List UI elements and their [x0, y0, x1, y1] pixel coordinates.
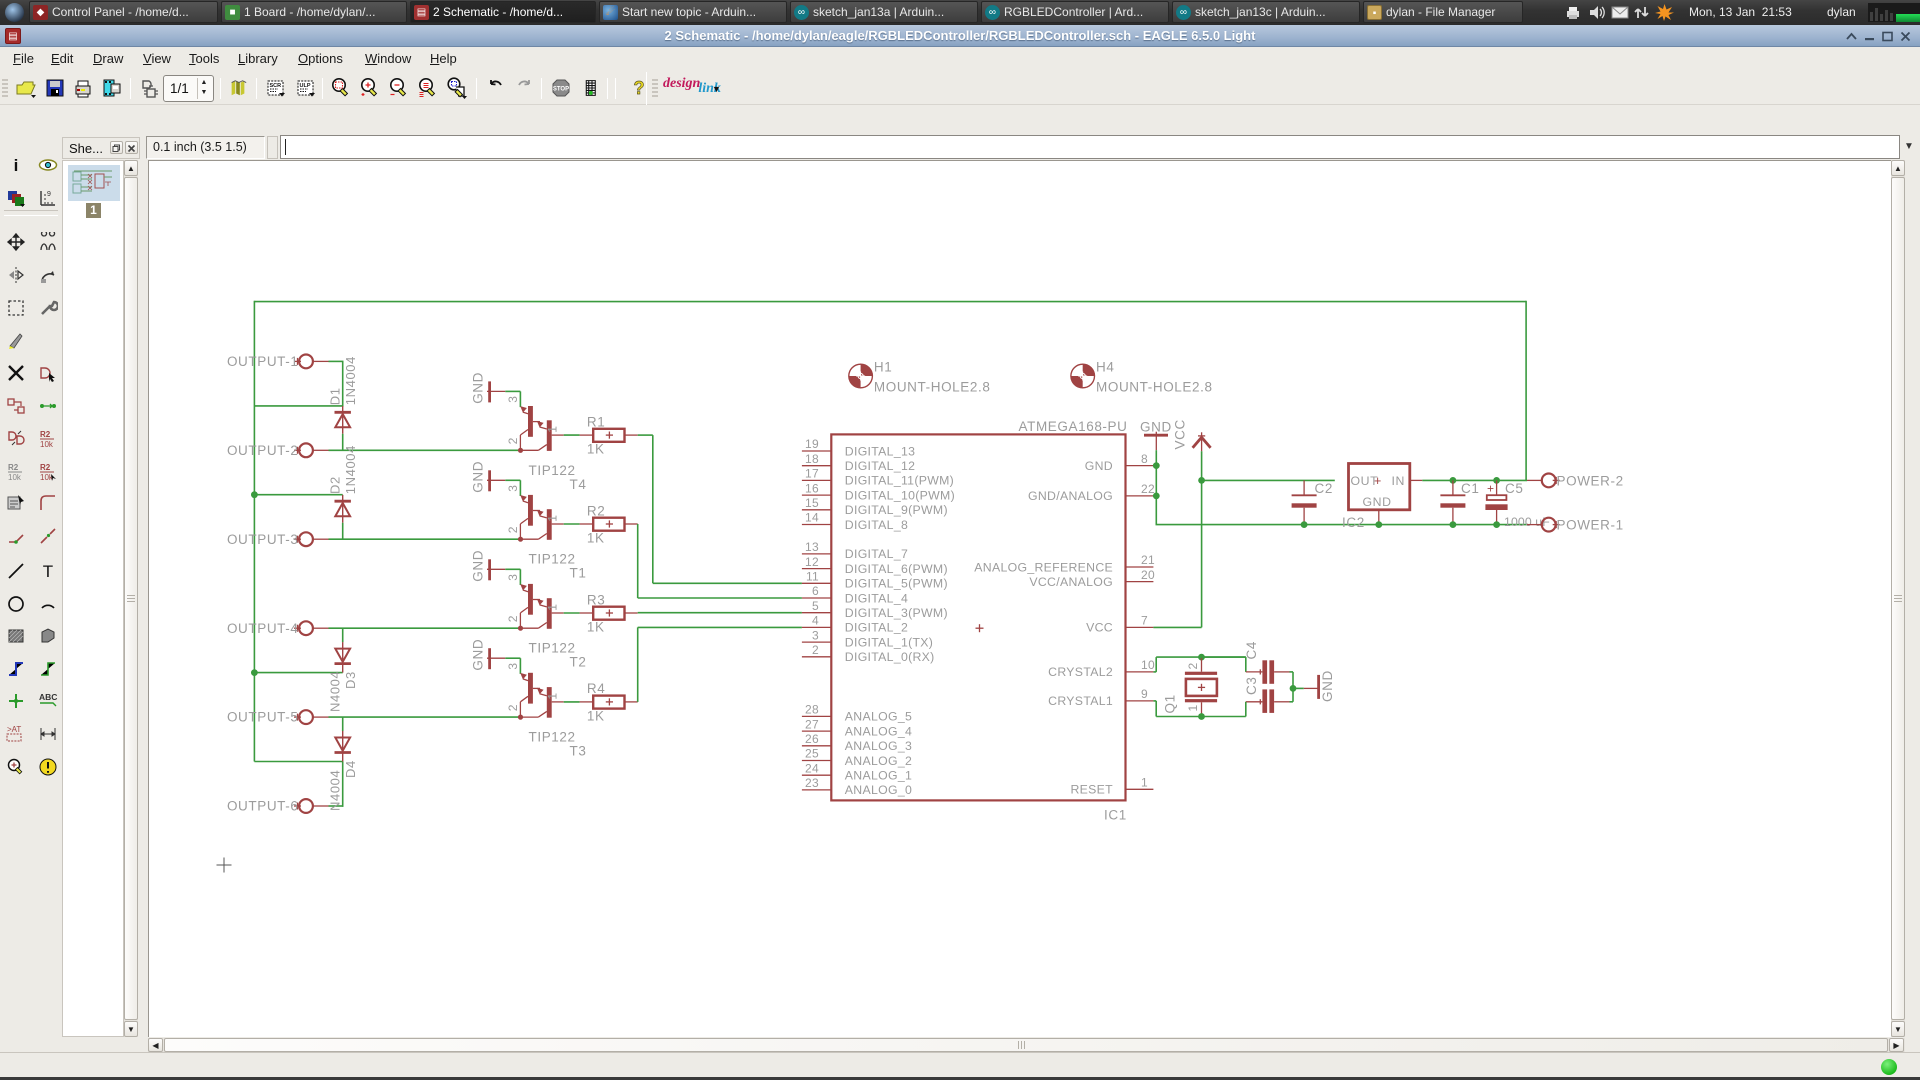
svg-text:15: 15: [805, 496, 819, 510]
svg-text:2: 2: [506, 437, 520, 444]
pin OUTPUT-3: [227, 532, 329, 547]
wire GND symbol to pin 8: [1155, 450, 1157, 465]
transistor T1 TIP122: [506, 484, 587, 580]
wire T1 emitter to R2: [564, 523, 580, 525]
svg-text:ANALOG_1: ANALOG_1: [845, 769, 912, 783]
svg-text:19: 19: [805, 437, 819, 451]
wire T4 emitter to R1: [564, 434, 580, 436]
svg-text:ANALOG_REFERENCE: ANALOG_REFERENCE: [974, 560, 1113, 574]
svg-text:RESET: RESET: [1071, 783, 1114, 797]
pin OUTPUT-2: [227, 443, 329, 458]
svg-text:1: 1: [546, 426, 560, 433]
svg-text:ABC: ABC: [39, 692, 57, 702]
pin POWER-1: [1542, 518, 1624, 533]
svg-text:IN: IN: [1392, 474, 1406, 488]
mount hole 4 MOUNT-HOLE2.8: [1071, 360, 1213, 395]
diode D4 1N4004: [328, 717, 359, 811]
svg-text:6: 6: [812, 584, 819, 598]
svg-text:ANALOG_4: ANALOG_4: [845, 724, 912, 738]
svg-text:R2: R2: [40, 430, 51, 439]
wire junction to GND symbol: [1293, 687, 1304, 689]
svg-text:1: 1: [546, 514, 560, 521]
svg-text:3: 3: [812, 628, 819, 642]
svg-text:17: 17: [805, 467, 819, 481]
svg-text:1K: 1K: [587, 531, 605, 546]
pin OUTPUT-4: [227, 621, 329, 636]
svg-text:R2: R2: [587, 503, 605, 518]
capacitor C3: [1244, 677, 1290, 713]
svg-text:3: 3: [506, 573, 520, 580]
diode D3 1N4004: [328, 628, 359, 712]
svg-text:23: 23: [805, 776, 819, 790]
svg-text:20: 20: [1141, 568, 1155, 582]
resistor R2 1K: [580, 503, 638, 545]
node junction C1 ground: [1450, 521, 1457, 528]
svg-text:T4: T4: [570, 477, 587, 492]
wire C3 to crystal pin 1: [1245, 702, 1247, 717]
capacitor C4: [1244, 641, 1290, 684]
svg-text:GND: GND: [1085, 459, 1113, 473]
svg-text:T1: T1: [570, 566, 587, 581]
wire top frame: [254, 301, 1526, 303]
svg-text:OUTPUT-5: OUTPUT-5: [227, 710, 299, 725]
svg-text:DIGITAL_2: DIGITAL_2: [845, 621, 908, 635]
svg-text:T2: T2: [570, 655, 587, 670]
wire OUTPUT-3 to T1 base: [329, 538, 521, 540]
svg-text:T3: T3: [570, 744, 587, 759]
wire OUTPUT-1 to D1: [329, 360, 344, 362]
pin OUTPUT-6: [227, 799, 329, 814]
transistor T2 TIP122: [506, 573, 587, 669]
svg-text:H1: H1: [874, 360, 892, 375]
wire T3 emitter to R4: [564, 701, 580, 703]
pin POWER-2: [1542, 473, 1624, 488]
supply symbol VCC: [1173, 419, 1211, 451]
svg-text:DIGITAL_10(PWM): DIGITAL_10(PWM): [845, 488, 955, 502]
svg-text:OUTPUT-2: OUTPUT-2: [227, 443, 299, 458]
svg-text:21: 21: [1141, 553, 1155, 567]
svg-text:TIP122: TIP122: [529, 552, 576, 567]
svg-text:1: 1: [1141, 776, 1148, 790]
svg-text:1K: 1K: [587, 442, 605, 457]
transistor T4 TIP122: [506, 396, 587, 492]
wire IC2 IN to POWER-2: [1410, 479, 1423, 481]
svg-text:1N4004: 1N4004: [343, 356, 358, 405]
wire right frame vertical: [1525, 301, 1527, 481]
svg-text:ANALOG_2: ANALOG_2: [845, 754, 912, 768]
wire OUTPUT-5 to T3 base: [329, 716, 521, 718]
wire OUTPUT-4 to T2 base: [329, 627, 521, 629]
svg-text:STOP: STOP: [553, 87, 569, 93]
svg-text:POWER-2: POWER-2: [1557, 473, 1624, 488]
svg-text:C3: C3: [1244, 677, 1259, 695]
svg-text:16: 16: [805, 481, 819, 495]
node junction C5 ground: [1493, 521, 1500, 528]
svg-text:3: 3: [506, 484, 520, 491]
svg-text:DIGITAL_5(PWM): DIGITAL_5(PWM): [845, 577, 948, 591]
svg-text:GND/ANALOG: GND/ANALOG: [1028, 489, 1113, 503]
resistor R3 1K: [580, 592, 638, 634]
svg-text:11: 11: [806, 570, 819, 584]
svg-text:DIGITAL_7: DIGITAL_7: [845, 547, 908, 561]
svg-text:ATMEGA168-PU: ATMEGA168-PU: [1019, 419, 1128, 434]
svg-text:D2: D2: [328, 476, 343, 494]
svg-text:2: 2: [506, 704, 520, 711]
svg-text:TIP122: TIP122: [529, 730, 576, 745]
svg-text:27: 27: [805, 717, 819, 731]
svg-text:5: 5: [812, 599, 819, 613]
svg-text:DIGITAL_9(PWM): DIGITAL_9(PWM): [845, 503, 948, 517]
svg-text:1N4004: 1N4004: [343, 445, 358, 494]
node junction C1 top: [1450, 477, 1457, 484]
svg-text:9: 9: [47, 191, 51, 198]
node junction IC2 ground: [1375, 521, 1382, 528]
wire ground rail to POWER-1: [1527, 524, 1541, 526]
svg-text:ANALOG_5: ANALOG_5: [845, 710, 912, 724]
capacitor C1: [1440, 480, 1479, 522]
svg-text:>AT: >AT: [7, 725, 21, 734]
wire OUTPUT-6 to D4: [329, 805, 344, 807]
ground symbol GND at crystal: [1304, 670, 1335, 702]
svg-text:DIGITAL_13: DIGITAL_13: [845, 444, 915, 458]
svg-text:C1: C1: [1461, 481, 1479, 496]
svg-text:26: 26: [805, 732, 819, 746]
wire crystal to C4: [1202, 656, 1246, 658]
svg-text:MOUNT-HOLE2.8: MOUNT-HOLE2.8: [1096, 380, 1213, 395]
wire pins 8-22 to ground rail: [1155, 466, 1157, 525]
svg-text:18: 18: [805, 452, 819, 466]
svg-text:13: 13: [805, 540, 819, 554]
svg-text:2: 2: [1186, 662, 1200, 669]
wire IC1 pin 10 to crystal: [1153, 671, 1156, 673]
ground symbol GND at T3: [471, 639, 506, 671]
svg-text:IC1: IC1: [1104, 808, 1127, 823]
svg-text:OUTPUT-6: OUTPUT-6: [227, 799, 299, 814]
wire R3 to IC1 pin 5: [638, 612, 802, 614]
svg-text:10k: 10k: [40, 440, 54, 448]
svg-text:22: 22: [1141, 482, 1155, 496]
ic ATMEGA168-PU IC1: [802, 419, 1155, 823]
svg-text:C5: C5: [1505, 481, 1523, 496]
svg-text:GND: GND: [471, 550, 486, 582]
svg-text:1: 1: [546, 603, 560, 610]
svg-text:28: 28: [805, 703, 819, 717]
svg-text:1: 1: [546, 692, 560, 699]
svg-text:ANALOG_0: ANALOG_0: [845, 783, 912, 797]
wire R2 to IC1 pin 6: [637, 524, 639, 598]
svg-text:7: 7: [1141, 614, 1148, 628]
svg-text:H4: H4: [1096, 360, 1114, 375]
svg-text:D3: D3: [343, 671, 358, 689]
svg-text:VCC: VCC: [1173, 419, 1188, 449]
capacitor C2: [1292, 480, 1333, 522]
svg-text:DIGITAL_1(TX): DIGITAL_1(TX): [845, 635, 933, 649]
svg-text:R3: R3: [587, 592, 605, 607]
wire T2 emitter to R3: [564, 612, 580, 614]
svg-text:?: ?: [634, 78, 645, 98]
svg-text:MOUNT-HOLE2.8: MOUNT-HOLE2.8: [874, 380, 991, 395]
horizontal scrollbar: [148, 1038, 1905, 1052]
ic voltage regulator IC2: [1342, 464, 1410, 531]
svg-text:OUTPUT-3: OUTPUT-3: [227, 532, 299, 547]
svg-text:8: 8: [1141, 452, 1148, 466]
svg-text:OUTPUT-1: OUTPUT-1: [227, 354, 299, 369]
wire GND to T2 collector: [505, 568, 520, 570]
svg-text:DIGITAL_11(PWM): DIGITAL_11(PWM): [845, 474, 954, 488]
svg-text:R2: R2: [8, 463, 19, 472]
node junction C3 C4 ground: [1290, 685, 1297, 692]
svg-text:3: 3: [506, 662, 520, 669]
svg-text:CRYSTAL2: CRYSTAL2: [1048, 665, 1113, 679]
pin OUTPUT-5: [227, 710, 329, 725]
wire D4 rail: [254, 761, 342, 763]
svg-text:1: 1: [1186, 704, 1200, 711]
ground symbol GND at T1: [471, 461, 506, 493]
pin OUTPUT-1: [227, 354, 329, 369]
wire R1 to IC1 pin 11: [638, 434, 653, 436]
svg-text:12: 12: [805, 555, 819, 569]
svg-text:N4004: N4004: [328, 671, 343, 712]
wire D1 rail: [254, 405, 342, 407]
node junction D3 rail: [251, 669, 258, 676]
svg-text:R4: R4: [587, 681, 605, 696]
wire R4 to IC1 pin 4: [637, 627, 639, 702]
svg-text:10k: 10k: [8, 473, 22, 481]
svg-text:1K: 1K: [587, 620, 605, 635]
svg-text:CRYSTAL1: CRYSTAL1: [1048, 694, 1113, 708]
node junction crystal pin 1: [1198, 713, 1205, 720]
cursor crosshair mark: [217, 858, 232, 873]
svg-text:DIGITAL_12: DIGITAL_12: [845, 459, 915, 473]
wire IC1 pin 9 to crystal pin 1: [1155, 701, 1157, 717]
svg-text:POWER-1: POWER-1: [1557, 518, 1624, 533]
svg-text:1K: 1K: [587, 709, 605, 724]
wire GND to T4 collector: [505, 390, 520, 392]
svg-text:+: +: [1487, 482, 1495, 496]
svg-text:N4004: N4004: [328, 770, 343, 811]
svg-text:DIGITAL_3(PWM): DIGITAL_3(PWM): [845, 606, 948, 620]
svg-text:GND: GND: [1320, 670, 1335, 702]
diode D1 1N4004: [328, 356, 359, 450]
diode D2 1N4004: [328, 445, 359, 539]
svg-text:TIP122: TIP122: [529, 463, 576, 478]
svg-text:i: i: [14, 156, 19, 175]
svg-text:25: 25: [805, 747, 819, 761]
svg-text:DIGITAL_0(RX): DIGITAL_0(RX): [845, 650, 935, 664]
svg-text:IC2: IC2: [1342, 515, 1365, 530]
wire GND to T3 collector: [505, 657, 520, 659]
svg-text:GND: GND: [471, 372, 486, 404]
wire left frame vertical: [253, 301, 255, 762]
svg-text:C4: C4: [1244, 641, 1259, 659]
svg-text:SCR: SCR: [270, 83, 282, 89]
wire OUTPUT-2 to T4 base: [329, 449, 521, 451]
svg-text:R2: R2: [40, 463, 51, 472]
svg-text:OUTPUT-4: OUTPUT-4: [227, 621, 299, 636]
svg-text:VCC/ANALOG: VCC/ANALOG: [1029, 575, 1113, 589]
ground symbol GND at T4: [471, 372, 506, 404]
ground symbol GND at T2: [471, 550, 506, 582]
svg-text:2: 2: [812, 643, 819, 657]
wire GND to T1 collector: [505, 479, 520, 481]
svg-text:GND: GND: [471, 639, 486, 671]
node junction C2 ground: [1301, 521, 1308, 528]
svg-text:R1: R1: [587, 414, 605, 429]
svg-text:TIP122: TIP122: [529, 641, 576, 656]
svg-text:VCC: VCC: [1086, 621, 1113, 635]
svg-text:DIGITAL_8: DIGITAL_8: [845, 518, 908, 532]
node junction D2 rail: [251, 491, 258, 498]
node junction C5 top: [1493, 477, 1500, 484]
svg-text:24: 24: [805, 761, 819, 775]
crystal Q1: [1163, 658, 1218, 716]
svg-text:ULP: ULP: [300, 83, 311, 89]
svg-text:9: 9: [1141, 687, 1148, 701]
mount hole 1 MOUNT-HOLE2.8: [849, 360, 991, 395]
capacitor C5 1000uF: [1485, 480, 1550, 529]
node junction VCC rail: [1198, 477, 1205, 484]
wire VCC to pin 7: [1201, 451, 1203, 627]
svg-text:T: T: [43, 562, 53, 581]
svg-text:3: 3: [506, 396, 520, 403]
resistor R4 1K: [580, 681, 638, 723]
svg-text:2: 2: [506, 526, 520, 533]
svg-text:ANALOG_3: ANALOG_3: [845, 739, 912, 753]
wire junction to C3: [1292, 688, 1294, 701]
transistor T3 TIP122: [506, 662, 587, 758]
svg-text:GND: GND: [1363, 495, 1392, 509]
node junction crystal pin 2: [1198, 654, 1205, 661]
node junction IC1 pin 22: [1153, 493, 1160, 500]
svg-text:2: 2: [506, 615, 520, 622]
wire C4 to GND junction: [1290, 671, 1294, 673]
svg-text:D1: D1: [328, 387, 343, 405]
wire D2 rail: [254, 494, 342, 496]
svg-text:DIGITAL_4: DIGITAL_4: [845, 591, 908, 605]
svg-text:10: 10: [1141, 658, 1155, 672]
wire D3 rail: [254, 672, 342, 674]
wire VCC rail to POWER-2 stub: [1527, 479, 1541, 481]
svg-text:DIGITAL_6(PWM): DIGITAL_6(PWM): [845, 562, 948, 576]
svg-text:D4: D4: [343, 760, 358, 778]
svg-text:14: 14: [805, 511, 819, 525]
svg-text:4: 4: [812, 614, 819, 628]
main vertical scrollbar: [1891, 160, 1905, 1037]
svg-text:Q1: Q1: [1163, 694, 1178, 713]
resistor R1 1K: [580, 414, 638, 456]
wire VCC rail to IC2 OUT: [1201, 479, 1335, 481]
svg-text:GND: GND: [471, 461, 486, 493]
ground symbol GND at IC1 pin 8: [1140, 420, 1172, 451]
svg-text:+: +: [1374, 474, 1382, 488]
node junction IC1 pin 8: [1153, 462, 1160, 469]
svg-text:C2: C2: [1315, 481, 1333, 496]
